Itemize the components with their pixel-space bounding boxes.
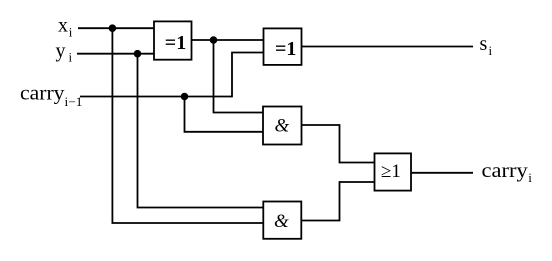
svg-text:x: x <box>58 14 68 36</box>
OR gate U5 box <box>375 153 412 190</box>
AND gate U4 box <box>263 202 301 239</box>
wire from node A down to AND U4 lower input <box>112 28 263 223</box>
XOR gate U2 box <box>264 28 302 65</box>
node D junction dot on y_i line <box>134 50 142 58</box>
svg-text:=1: =1 <box>165 32 186 54</box>
wire input y_i to XOR U1 <box>77 53 154 55</box>
node B junction dot on XOR U1 output <box>210 36 218 44</box>
svg-text:&: & <box>274 211 289 232</box>
wire AND U3 output to OR U5 upper input <box>302 125 375 163</box>
wire carry_i-1 riser to XOR U2 <box>232 53 264 98</box>
svg-text:i: i <box>69 25 73 40</box>
wire input x_i to XOR U1 <box>78 27 154 29</box>
svg-text:≥1: ≥1 <box>381 161 401 182</box>
svg-text:=1: =1 <box>275 38 296 60</box>
wire XOR U2 output to s_i <box>302 46 474 48</box>
svg-text:i: i <box>528 170 532 185</box>
svg-text:s: s <box>480 33 488 55</box>
XOR gate U1 box <box>154 21 192 59</box>
svg-text:&: & <box>275 116 290 137</box>
node C junction dot on carry_i-1 line <box>181 93 189 101</box>
wire OR U5 output to carry_i <box>411 172 474 174</box>
svg-text:i: i <box>69 50 73 65</box>
wire from node B down to AND U3 upper input <box>214 40 264 113</box>
wire carry_i-1 horizontal <box>80 96 232 98</box>
wire XOR U1 output to XOR U2 <box>192 39 264 41</box>
wire AND U4 output to OR U5 lower input <box>302 182 375 221</box>
wire from node C down to AND U3 lower input <box>185 97 264 132</box>
svg-text:i: i <box>489 43 493 58</box>
svg-text:y: y <box>56 40 66 62</box>
wire from node D down to AND U4 upper input <box>138 54 264 208</box>
svg-text:carry: carry <box>20 83 65 105</box>
svg-text:carry: carry <box>482 160 528 182</box>
svg-text:i−1: i−1 <box>65 95 83 109</box>
node A junction dot on x_i line <box>109 24 117 32</box>
AND gate U3 box <box>263 107 302 145</box>
